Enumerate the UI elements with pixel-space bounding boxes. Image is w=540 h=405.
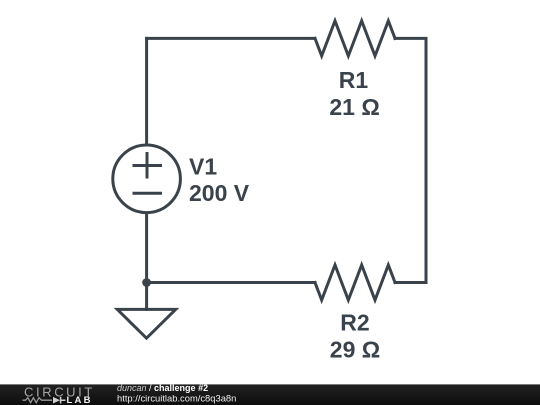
svg-text:R2: R2 <box>340 310 369 336</box>
voltage source V1 <box>113 145 181 213</box>
resistor R2 <box>315 265 395 300</box>
ground <box>117 309 175 338</box>
svg-text:R1: R1 <box>339 67 369 93</box>
svg-text:LAB: LAB <box>67 395 93 405</box>
svg-text:29 Ω: 29 Ω <box>330 337 380 363</box>
svg-text:V1: V1 <box>189 154 217 180</box>
logo resistor zigzag <box>23 398 53 403</box>
resistor R1 <box>315 21 395 56</box>
wire left vertical top <box>145 38 148 144</box>
wire bottom from node to R2 <box>147 281 315 284</box>
wire R2 to right corner <box>395 281 426 284</box>
svg-text:200 V: 200 V <box>189 180 250 206</box>
svg-text:http://circuitlab.com/c8q3a8n: http://circuitlab.com/c8q3a8n <box>117 392 236 403</box>
V1 minus sign <box>134 192 161 195</box>
wire to ground <box>145 283 148 310</box>
wire R1 to right corner <box>395 38 426 282</box>
wire left vertical bottom <box>145 214 148 283</box>
node junction dot <box>142 278 151 287</box>
V1 plus sign <box>134 154 161 178</box>
logo diode symbol <box>53 397 60 404</box>
svg-text:21 Ω: 21 Ω <box>329 94 379 120</box>
wire top from left corner to R1 <box>147 37 315 40</box>
